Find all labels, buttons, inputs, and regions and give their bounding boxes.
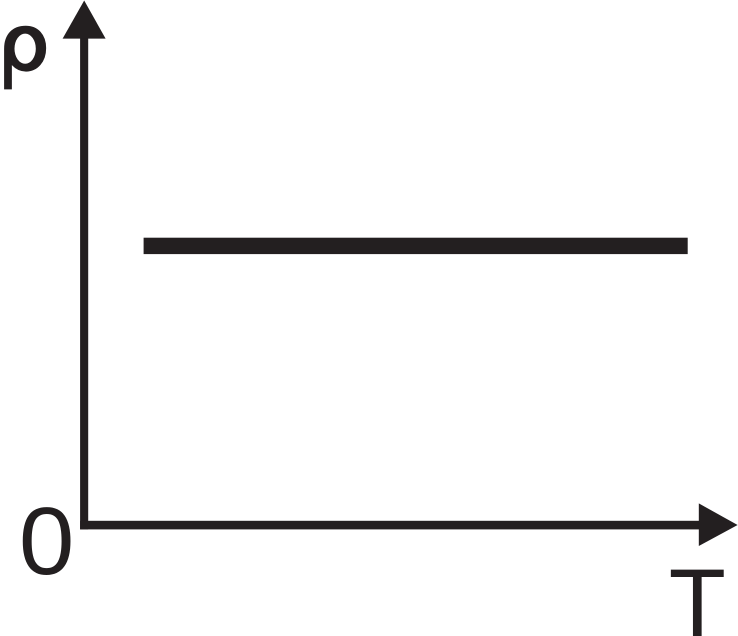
x-axis arrowhead (699, 503, 738, 546)
y-axis arrowhead (63, 1, 106, 39)
data line: constant resistivity (144, 238, 688, 254)
label rho (y-axis, Symbol-font style outline) (4, 26, 46, 90)
svg-text:T: T (669, 550, 726, 636)
svg-text:0: 0 (19, 488, 74, 595)
x-axis shaft (80, 521, 700, 530)
y-axis shaft (80, 20, 88, 529)
